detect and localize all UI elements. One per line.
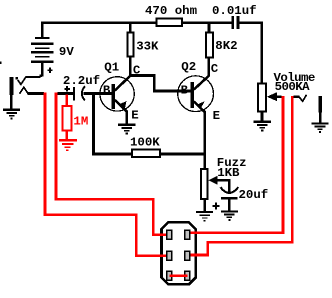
svg-text:E: E bbox=[131, 108, 138, 122]
svg-text:470 ohm: 470 ohm bbox=[145, 4, 197, 18]
svg-text:E: E bbox=[213, 109, 220, 123]
svg-text:B: B bbox=[181, 83, 189, 97]
svg-text:1M: 1M bbox=[73, 114, 88, 128]
svg-text:Q1: Q1 bbox=[104, 60, 119, 74]
svg-text:B: B bbox=[103, 83, 111, 97]
svg-text:8K2: 8K2 bbox=[215, 39, 237, 53]
svg-text:20uf: 20uf bbox=[239, 188, 269, 202]
svg-text:Q2: Q2 bbox=[181, 60, 196, 74]
svg-text:9V: 9V bbox=[59, 45, 74, 59]
svg-text:C: C bbox=[133, 63, 141, 77]
svg-text:0.01uf: 0.01uf bbox=[212, 4, 257, 18]
svg-text:2.2uf: 2.2uf bbox=[63, 74, 100, 88]
svg-text:1KB: 1KB bbox=[217, 166, 240, 180]
svg-text:500KA: 500KA bbox=[275, 80, 311, 94]
svg-text:33K: 33K bbox=[136, 39, 159, 53]
svg-text:100K: 100K bbox=[130, 136, 160, 150]
svg-text:C: C bbox=[211, 62, 219, 76]
